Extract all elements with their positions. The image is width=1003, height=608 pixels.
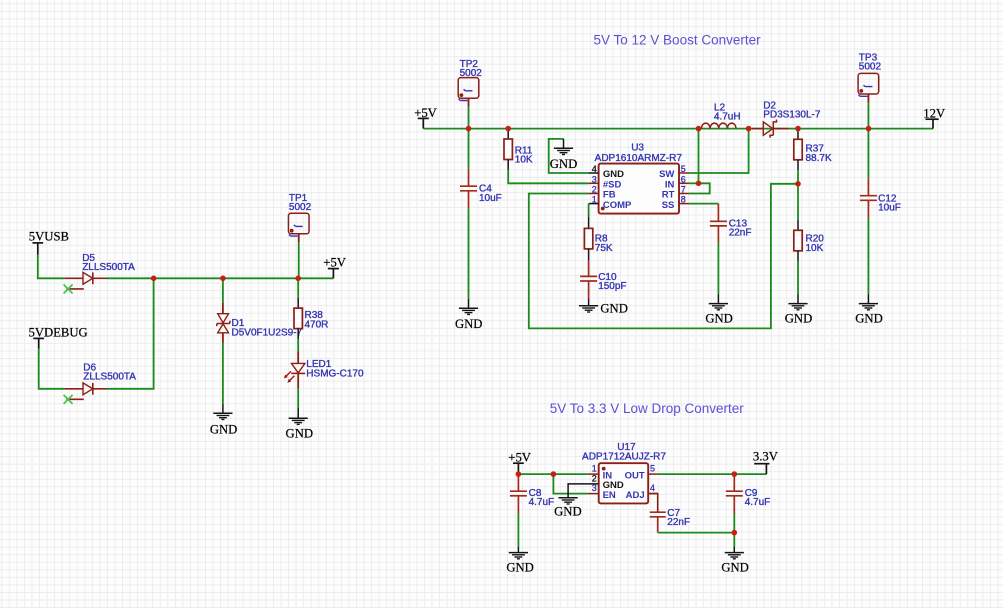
svg-text:SS: SS <box>662 200 675 211</box>
svg-text:GND: GND <box>506 560 534 574</box>
svg-text:150pF: 150pF <box>598 281 626 292</box>
svg-text:ZLLS500TA: ZLLS500TA <box>83 372 136 383</box>
svg-text:GND: GND <box>210 422 238 436</box>
svg-text:5002: 5002 <box>859 62 882 73</box>
svg-text:4.7uF: 4.7uF <box>529 497 555 508</box>
svg-text:4: 4 <box>650 483 655 493</box>
svg-text:GND: GND <box>785 312 813 326</box>
svg-text:5VUSB: 5VUSB <box>29 230 69 244</box>
svg-text:EN: EN <box>603 490 616 501</box>
svg-text:GND: GND <box>286 427 314 441</box>
svg-text:6: 6 <box>681 174 686 184</box>
svg-text:4.7uF: 4.7uF <box>745 497 771 508</box>
svg-text:4: 4 <box>592 164 597 174</box>
svg-text:470R: 470R <box>305 319 329 330</box>
svg-text:GND: GND <box>550 157 578 171</box>
svg-text:GND: GND <box>455 317 483 331</box>
svg-text:3: 3 <box>592 483 597 493</box>
svg-text:8: 8 <box>681 195 686 205</box>
svg-text:+5V: +5V <box>323 256 346 270</box>
svg-text:10K: 10K <box>806 243 824 254</box>
svg-text:5V To 12 V Boost Converter: 5V To 12 V Boost Converter <box>594 32 762 47</box>
svg-text:U3: U3 <box>631 142 644 153</box>
svg-text:12V: 12V <box>923 106 946 120</box>
svg-text:2: 2 <box>592 185 597 195</box>
svg-text:ADP1610ARMZ-R7: ADP1610ARMZ-R7 <box>595 153 683 164</box>
svg-text:7: 7 <box>681 185 686 195</box>
svg-text:+5V: +5V <box>508 450 531 464</box>
svg-text:3.3V: 3.3V <box>753 450 779 464</box>
svg-text:10K: 10K <box>515 155 533 166</box>
svg-text:GND: GND <box>855 312 883 326</box>
svg-text:ZLLS500TA: ZLLS500TA <box>82 262 135 273</box>
svg-text:GND: GND <box>600 301 628 315</box>
svg-text:4.7uH: 4.7uH <box>714 112 741 123</box>
svg-text:22nF: 22nF <box>729 228 752 239</box>
svg-text:HSMG-C170: HSMG-C170 <box>306 369 364 380</box>
svg-text:5: 5 <box>681 164 686 174</box>
svg-text:1: 1 <box>592 464 597 474</box>
svg-text:ADP1712AUJZ-R7: ADP1712AUJZ-R7 <box>582 452 666 463</box>
svg-text:22nF: 22nF <box>667 517 690 528</box>
svg-text:D5V0F1U2S9-7: D5V0F1U2S9-7 <box>232 328 303 339</box>
svg-text:1: 1 <box>592 195 597 205</box>
svg-text:10uF: 10uF <box>878 203 901 214</box>
svg-text:5002: 5002 <box>289 202 312 213</box>
svg-text:OUT: OUT <box>625 470 645 481</box>
svg-text:5VDEBUG: 5VDEBUG <box>29 326 88 340</box>
svg-text:GND: GND <box>705 312 733 326</box>
svg-text:PD3S130L-7: PD3S130L-7 <box>763 110 821 121</box>
svg-text:GND: GND <box>554 505 582 519</box>
svg-text:5: 5 <box>650 464 655 474</box>
svg-text:ADJ: ADJ <box>626 490 645 501</box>
svg-text:5V To 3.3 V Low Drop Converter: 5V To 3.3 V Low Drop Converter <box>550 401 745 416</box>
svg-text:GND: GND <box>721 560 749 574</box>
svg-text:3: 3 <box>592 174 597 184</box>
svg-text:10uF: 10uF <box>479 193 502 204</box>
svg-text:COMP: COMP <box>603 200 632 211</box>
svg-text:88.7K: 88.7K <box>806 153 832 164</box>
svg-text:75K: 75K <box>595 243 613 254</box>
svg-text:2: 2 <box>592 474 597 484</box>
